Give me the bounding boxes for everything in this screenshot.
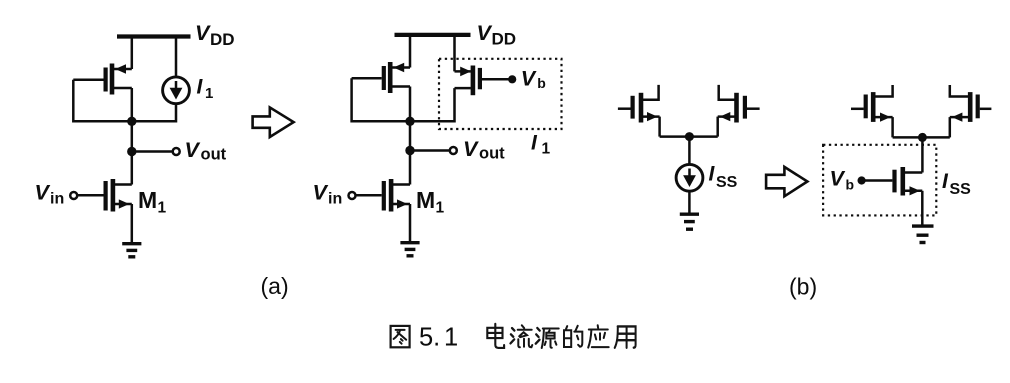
VDD rail 2 <box>395 33 471 37</box>
wire VDD to PMOS2 source <box>409 35 412 68</box>
wire PMOS2 drain to node <box>409 87 412 122</box>
svg-text:V: V <box>521 66 537 90</box>
wire common source 2 <box>893 136 950 139</box>
svg-text:M: M <box>138 187 157 213</box>
block arrow 2 <box>766 167 807 196</box>
wire current source to ground <box>688 191 691 213</box>
wire VDD to PMOS source <box>131 37 134 70</box>
pmos P1 (diode-connected) <box>73 64 132 95</box>
svg-text:V: V <box>463 137 479 161</box>
wire D4 source down <box>949 117 952 137</box>
svg-text:V: V <box>195 21 211 45</box>
caption char 的 <box>564 326 582 347</box>
wire D1 source down <box>658 117 661 137</box>
svg-text:1: 1 <box>444 323 458 351</box>
nmos MT (tail current source) <box>895 167 923 196</box>
block arrow 1 <box>253 107 294 137</box>
svg-text:V: V <box>35 181 51 205</box>
caption char 图 <box>391 326 410 347</box>
wire Vout to M1 drain <box>131 152 134 185</box>
wire diode loop <box>73 80 132 122</box>
svg-text:5.: 5. <box>419 323 440 351</box>
svg-text:b: b <box>537 75 546 91</box>
node Vb dot 2 <box>858 176 866 184</box>
svg-text:1: 1 <box>542 141 551 158</box>
node Vout terminal <box>173 148 180 155</box>
wire diode loop 2 <box>352 78 410 121</box>
wire M1 source to ground <box>131 204 134 243</box>
pmos P2 (diode-connected) <box>352 62 410 93</box>
wire Vout to M1b drain <box>409 151 412 185</box>
wire node to Vout node <box>131 121 134 151</box>
nmos D1 (diff pair left) <box>618 85 660 123</box>
svg-text:out: out <box>201 146 227 164</box>
svg-text:M: M <box>416 187 435 213</box>
node tail dot <box>685 132 694 141</box>
svg-text:b: b <box>846 176 855 192</box>
svg-text:out: out <box>479 145 505 163</box>
svg-text:SS: SS <box>950 181 972 198</box>
svg-text:SS: SS <box>716 174 738 191</box>
wire VDD to current source <box>175 37 178 77</box>
nmos M1 <box>78 179 132 212</box>
nmos M1b <box>356 179 410 212</box>
wire PMOS drain to node <box>131 88 134 121</box>
node junction dot 2 <box>405 117 414 126</box>
nmos D3 (diff pair left) <box>851 85 893 122</box>
svg-text:DD: DD <box>210 30 235 49</box>
svg-text:1: 1 <box>436 200 445 217</box>
node Vout terminal 2 <box>450 147 457 154</box>
wire M1b source to ground <box>409 204 412 242</box>
svg-text:DD: DD <box>492 30 517 49</box>
wire node to current source <box>688 137 691 165</box>
ground 3 <box>680 214 699 229</box>
nmos D4 (diff pair right) <box>950 85 992 122</box>
node Vin terminal 2 <box>349 192 356 199</box>
wire D3 source down <box>891 117 894 137</box>
nmos D2 (diff pair right) <box>718 85 760 123</box>
svg-text:V: V <box>830 166 846 190</box>
node Vout junction dot <box>127 147 136 156</box>
current source ISS <box>676 164 703 191</box>
node Vout junction dot 2 <box>405 146 414 155</box>
wire common source <box>660 135 718 138</box>
dashed box ISS <box>823 145 936 216</box>
svg-text:1: 1 <box>205 85 213 102</box>
caption: 图 5.1 电流源的应用 <box>391 324 636 348</box>
wire Vb to MT gate <box>862 179 893 182</box>
wire D2 source down <box>716 117 719 137</box>
ground <box>122 244 141 257</box>
node Vin terminal <box>70 192 77 199</box>
node junction dot <box>127 117 136 126</box>
svg-text:V: V <box>185 138 201 162</box>
wire node to MT drain <box>921 137 924 172</box>
wire to Vout terminal 2 <box>410 149 450 152</box>
pmos P3 (current source in box) <box>455 66 509 96</box>
caption char 应 <box>588 325 609 347</box>
node Vb dot <box>508 75 516 83</box>
svg-text:(b): (b) <box>789 274 817 300</box>
wire PMOS3 drain to node <box>410 88 455 121</box>
wire node to Vout node 2 <box>409 121 412 150</box>
node tail dot 2 <box>918 133 927 142</box>
current source I1 <box>163 77 190 104</box>
wire MT source to ground <box>921 191 924 225</box>
svg-text:in: in <box>328 191 342 208</box>
caption char 源 <box>536 328 559 348</box>
ground 4 <box>912 226 934 242</box>
svg-text:in: in <box>50 191 64 208</box>
svg-text:V: V <box>477 21 493 45</box>
svg-text:(a): (a) <box>261 273 289 299</box>
svg-text:1: 1 <box>158 200 167 217</box>
wire VDD to PMOS3 source <box>453 35 456 72</box>
svg-text:V: V <box>313 181 329 205</box>
VDD rail <box>117 34 191 38</box>
caption char 电 <box>487 324 504 348</box>
wire to Vout terminal <box>132 150 173 153</box>
caption char 流 <box>511 325 533 347</box>
dashed box I1 <box>439 59 562 129</box>
caption char 用 <box>615 326 636 347</box>
ground 2 <box>400 243 419 256</box>
wire current source to node <box>132 104 176 121</box>
